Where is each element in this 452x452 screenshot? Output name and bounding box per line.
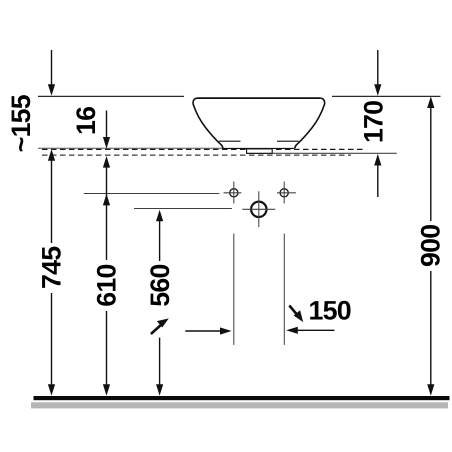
dim 900 upper shaft: [430, 107, 432, 221]
C3 cross horizontal: [242, 208, 275, 210]
dim 610 arrowhead at hole line H1 (up): [103, 194, 110, 206]
C1 cross vertical: [233, 182, 235, 204]
floor line (black): [34, 396, 450, 400]
hole circle C2: [280, 189, 288, 197]
faucet hole line H2: [134, 208, 232, 210]
dim 745 lower shaft: [51, 293, 53, 386]
rim reference line right segment: [332, 95, 441, 97]
C2 cross vertical: [283, 182, 285, 204]
rim reference line left segment: [38, 95, 184, 97]
dim 900 lower shaft: [430, 271, 432, 386]
dim 745 upper shaft: [51, 160, 53, 243]
dim ~155 top arrowhead: [48, 84, 55, 96]
svg-text:745: 745: [36, 246, 66, 289]
dim 560 upper shaft: [159, 220, 161, 261]
svg-text:900: 900: [416, 225, 446, 267]
basin inner bottom tick left: [219, 140, 241, 142]
dim 170 top arrow shaft: [377, 50, 379, 85]
dim 170 bottom arrowhead (up): [374, 154, 381, 166]
dim 745 top arrowhead (up, at countertop): [48, 149, 55, 161]
dim 560 bottom arrowhead (down, at floor): [156, 384, 163, 396]
dim 560 arrowhead at hole line H2 (up): [156, 210, 163, 222]
svg-text:170: 170: [359, 101, 389, 143]
dim 560 lower shaft: [159, 338, 161, 386]
dim 150 left arrowhead (right): [220, 327, 232, 334]
svg-text:560: 560: [145, 264, 175, 306]
basin right corner and side profile: [295, 98, 325, 148]
dim 170 top arrowhead (down): [374, 84, 381, 96]
hole circle C3 (drain): [251, 202, 266, 217]
svg-text:16: 16: [71, 107, 101, 135]
svg-text:~155: ~155: [6, 94, 36, 152]
basin left corner and side profile: [193, 98, 223, 148]
dim 610 line upper shaft (from 16 arrow down to label): [106, 166, 108, 260]
faucet hole line H1: [84, 193, 220, 195]
dim 16 top arrow shaft: [106, 111, 108, 139]
C3 cross vertical: [258, 191, 260, 227]
countertop surface line L1: [38, 147, 223, 149]
dim 150 right extension line (below hole C2): [283, 234, 285, 345]
dim 150 left arrow shaft: [185, 330, 221, 332]
dim 150 right arrow shaft: [297, 329, 335, 331]
dim 170 bottom arrow shaft: [377, 165, 379, 198]
countertop dashed line D2: [42, 154, 351, 156]
basin inner bottom tick right: [277, 140, 299, 142]
svg-text:610: 610: [91, 264, 121, 306]
basin rim top: [198, 97, 321, 99]
dim 150 pointer arrow (SE diagonal): [289, 306, 297, 315]
dim ~155 top arrow shaft: [51, 50, 53, 85]
dim 150 right arrowhead (left): [286, 327, 298, 334]
basin outline: [193, 97, 325, 148]
dim 900 top arrowhead (up, at rim line): [427, 96, 434, 108]
dim 560 pointer arrow (NE diagonal): [151, 325, 161, 334]
basin bottom line: [223, 147, 295, 149]
basin base line L2: [246, 152, 397, 154]
C1 cross horizontal: [224, 192, 242, 194]
dim 610 lower shaft: [106, 311, 108, 386]
C2 cross horizontal: [277, 192, 296, 194]
dim 16 top arrowhead (down): [103, 137, 110, 149]
dim 745 bottom arrowhead (down, at floor): [48, 384, 55, 396]
hole circle C1: [230, 189, 238, 197]
dim 150 left extension line (below hole C1): [233, 234, 235, 345]
countertop dashed line D1: [42, 148, 363, 150]
dim 610 bottom arrowhead (down, at floor): [103, 384, 110, 396]
svg-text:150: 150: [309, 296, 351, 326]
basin foot: [247, 149, 273, 153]
dim 900 bottom arrowhead (down, at floor): [427, 384, 434, 396]
dim 16 bottom arrowhead (up): [103, 156, 110, 168]
floor hatch band (gray): [31, 402, 448, 408]
